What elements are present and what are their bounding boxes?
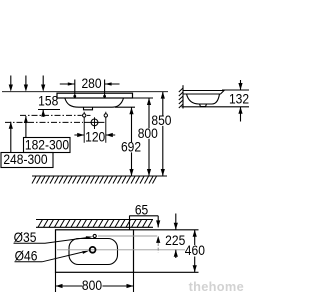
460 dim [194,230,196,272]
big hole (drain) [91,119,98,126]
label box 182-300 [24,138,71,153]
gray centerline drain [57,249,186,251]
plan view wall band [36,220,153,228]
svg-text:850: 850 [151,112,171,128]
svg-text:120: 120 [85,129,105,145]
front ext line [134,271,199,273]
text 460 [185,246,205,256]
dim 132 vertical [240,80,242,122]
dash-dot centerline small holes [20,114,82,116]
side view bowl [187,94,220,104]
ext line slab bottom (800) [133,97,153,99]
side view slab [183,91,224,95]
dim 692 vertical [131,107,133,176]
leader 35 [14,237,91,243]
side view wall hatch [179,88,183,108]
65 label lines [129,216,158,230]
dash-dot centerline big hole [5,121,83,123]
svg-text:65: 65 [135,202,148,218]
dim 120 [74,134,115,136]
plan view bowl rounded rect [69,239,118,265]
plan view basin rect [56,230,134,272]
text 132 [230,94,249,104]
slab top extension line to left [2,91,168,93]
dim 280 ticks [75,80,105,97]
floor line [32,175,167,177]
svg-text:460: 460 [185,243,205,259]
800 dim [56,272,134,292]
svg-text:182-300: 182-300 [25,137,69,153]
text 225 [165,235,186,245]
225 dim [175,214,177,259]
small hole left [83,114,86,117]
dim 280 arrows [68,82,112,85]
side view wall line [182,85,184,108]
text 120 [86,132,105,142]
dim 158 vertical with outside arrows [42,76,44,118]
svg-text:158: 158 [38,93,58,109]
svg-text:280: 280 [81,76,101,92]
front view: bowl under slab [65,98,124,107]
svg-text:225: 225 [165,232,185,248]
text 850 [153,116,172,126]
tap hole [93,234,96,237]
dim 850 vertical [162,92,164,176]
ext line under 158 [38,109,60,111]
floor hatch [32,176,157,183]
dim 248-300 vertical [10,76,12,153]
side view drain detail [200,104,207,107]
gray centerline tap [98,235,157,237]
front view: drain stub [84,107,93,110]
svg-text:Ø35: Ø35 [14,229,37,245]
text 692 [122,142,141,152]
front view: washbasin deck slab [57,93,133,98]
dim 280 line [60,83,120,85]
label box 248-300 [1,153,53,168]
svg-text:Ø46: Ø46 [15,248,38,264]
side view bottom ref line [182,106,250,108]
dim 800 vertical [148,98,150,176]
text 280 [81,79,102,89]
text 800 bottom [83,280,103,290]
side view top ref line [222,89,249,91]
svg-text:800: 800 [82,277,102,293]
dim 182-300 vertical [25,76,27,138]
rear ext line [134,229,199,231]
dots on slab [73,95,76,98]
svg-text:692: 692 [121,139,141,155]
svg-text:thehome: thehome [189,279,244,294]
text 800 (height) [139,128,158,138]
drain hole [90,247,96,253]
leader 46 [15,251,86,261]
svg-text:132: 132 [229,91,249,107]
small hole right [104,114,107,117]
ext line bowl bottom (692) [115,106,135,108]
svg-text:248-300: 248-300 [3,152,47,168]
